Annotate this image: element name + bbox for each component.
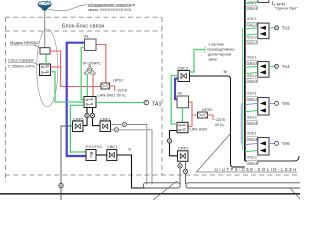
wire dashed room boundary top line 1 (5, 16, 162, 18)
svg-text:~220 В: ~220 В (116, 89, 128, 93)
svg-text:IP-УПАТС: IP-УПАТС (83, 60, 101, 65)
svg-text:P: P (276, 26, 278, 30)
svg-text:XS2.1: XS2.1 (247, 17, 257, 21)
wire dashed room boundary top line 2 (5, 30, 162, 32)
wire diagonal leader bottom left (153, 181, 177, 200)
block CRF5 optical box (73, 121, 84, 132)
svg-text:XS2.2: XS2.2 (247, 35, 257, 39)
wire blue riser along bar (240, 104, 242, 144)
svg-text:C 3560G-24TS: C 3560G-24TS (8, 64, 35, 69)
svg-text:“Орион Про”: “Орион Про” (275, 6, 299, 11)
wire СВС1 out to bottom duct (117, 155, 145, 188)
svg-text:XS3.1: XS3.1 (247, 56, 257, 60)
wire blue A2 to СВС2 (175, 79, 178, 100)
wire green LAN-SW1 to FV (70, 105, 86, 152)
connector block XS2 / TA3 (245, 17, 290, 44)
node converter circle LAN-SW2 (167, 139, 171, 143)
modem box (40, 48, 50, 54)
wire green УПАТС to LAN-SW1 (86, 74, 88, 97)
node fiber splice circle on fiber2 (114, 128, 118, 132)
cable duct B (186, 183, 303, 188)
svg-text:50 Гц: 50 Гц (117, 94, 126, 98)
svg-text:ТА5: ТА5 (282, 101, 290, 106)
wire circle1 to CRF5 (83, 118, 87, 126)
svg-text:ТА3: ТА3 (282, 26, 290, 31)
antenna dish W1 (38, 1, 51, 11)
svg-text:СКС2.3: СКС2.3 (248, 22, 258, 26)
connector block XS3 / TA4 (245, 56, 290, 83)
wire diagonal leader bottom right (290, 188, 301, 200)
block CRF1 optical box (100, 121, 111, 132)
svg-text:P: P (145, 101, 147, 105)
svg-text:U/UTP4-C5E-SOLID-LSZH: U/UTP4-C5E-SOLID-LSZH (215, 167, 298, 172)
wire red UPS2 mains (208, 115, 214, 120)
svg-text:CRF2: CRF2 (178, 145, 189, 150)
block CRF2 optical box (178, 151, 189, 162)
block FV surge box (86, 150, 96, 161)
svg-text:СВС1: СВС1 (107, 144, 118, 149)
svg-text:5b: 5b (224, 70, 228, 74)
svg-text:50 Гц: 50 Гц (215, 123, 224, 127)
block IP-УПАТС triangle symbol (84, 65, 96, 75)
svg-text:XS4.1: XS4.1 (247, 92, 257, 96)
wire green СВС2 to dispatcher note (190, 50, 206, 73)
wire circle2 to CRF1 (93, 118, 101, 126)
svg-text:LAN-SW2: LAN-SW2 (190, 127, 209, 132)
cable duct A (144, 183, 181, 188)
wire CRF1 fiber 1 right (111, 124, 123, 126)
svg-text:СКС2.6: СКС2.6 (248, 79, 258, 83)
wire fiber continue to bottom edge (60, 188, 62, 200)
svg-text:ТА6: ТА6 (282, 141, 290, 146)
node fiber splice circle on fiber1 (122, 122, 126, 126)
svg-text:XS5.2: XS5.2 (247, 155, 257, 159)
wire green riser along bar (242, 28, 244, 150)
svg-text:СКС2.5: СКС2.5 (248, 61, 258, 65)
svg-text:СКС2.10: СКС2.10 (248, 161, 260, 165)
node TA1 (144, 100, 149, 105)
wire blue A1 to FV1 (67, 43, 86, 156)
wire FV to СВС1 (96, 154, 107, 156)
wire antenna mast down to modem (44, 10, 46, 48)
node fiber splice circle CRF2-1 (178, 164, 182, 168)
wire green LAN-SW2 to СВС2 riser (171, 76, 178, 125)
svg-text:XS4.2: XS4.2 (247, 115, 257, 119)
svg-text:связи: связи (208, 58, 217, 62)
svg-text:СКС2.7: СКС2.7 (248, 97, 258, 101)
switch LAN-SW2 box (177, 122, 188, 132)
svg-text:XS3.2: XS3.2 (247, 74, 257, 78)
wire red УПАТС power (92, 74, 94, 97)
node operator equipment annotation (48, 5, 87, 11)
svg-text:UPS2: UPS2 (202, 107, 213, 112)
svg-text:FV1,FV2: FV1,FV2 (86, 144, 103, 149)
svg-text:СКС2.2: СКС2.2 (248, 6, 258, 10)
svg-text:A2: A2 (178, 90, 184, 95)
node fiber splice circle CRF2-2 (183, 169, 187, 173)
wire red modem to power bus (50, 51, 101, 87)
node fiber splice circle left (59, 183, 63, 187)
wire black LAN-SW2 to CRF2 (170, 131, 178, 139)
connector block XS5 / TA6 (245, 132, 290, 165)
wire green A1 to LAN-SW1 (81, 48, 84, 100)
patch cabinet bottom shelf (245, 156, 299, 161)
svg-text:ТА1: ТА1 (152, 102, 162, 108)
wire LAN-SW1 down to optical cross units (86, 108, 88, 114)
block СВС2 box (178, 71, 190, 82)
switch SW Cisco box (40, 64, 51, 76)
svg-text:СКС2.4: СКС2.4 (248, 40, 258, 44)
svg-text:диспетчерской: диспетчерской (208, 53, 231, 57)
svg-text:LAN-SW1: LAN-SW1 (98, 93, 117, 98)
wire dashed room boundary right (161, 17, 163, 175)
node converter circle 2 (90, 113, 94, 117)
equipment group ellipse (37, 29, 58, 107)
block A1 box (85, 39, 97, 51)
wire red A1 to UPS1 (96, 45, 106, 84)
node converter circle 1 (85, 113, 89, 117)
block UPS1 box (101, 83, 110, 89)
wire green modem to cisco (45, 54, 47, 64)
wire red UPS1 mains (110, 86, 115, 91)
wire red A2 UPS2 LAN-SW2 power (188, 102, 192, 126)
wire CRF5 fiber out left and down (61, 126, 73, 183)
svg-text:~220 В: ~220 В (214, 118, 226, 122)
svg-text:СКС2.8: СКС2.8 (248, 121, 258, 125)
wire CRF2 fiber 1 down (179, 161, 181, 163)
svg-text:UPS1: UPS1 (113, 77, 124, 82)
svg-text:Модем HR9260: Модем HR9260 (10, 40, 39, 45)
patch panel bar (244, 0, 246, 161)
wire red cisco to power bus (51, 66, 61, 68)
wire green A2 to LAN-SW2 (182, 108, 184, 123)
switch LAN-SW1 box (84, 97, 96, 108)
svg-text:Блок-Бокс связи: Блок-Бокс связи (62, 24, 104, 30)
block СВС1 box (107, 150, 117, 161)
block UPS2 box (198, 112, 208, 118)
wire dashed room boundary left (5, 17, 7, 182)
svg-text:A1: A1 (84, 34, 90, 39)
wire CRF1 fiber 2 right (111, 129, 115, 131)
svg-text:связи XXXXXXXXXXXX: связи XXXXXXXXXXXX (88, 7, 132, 12)
svg-text:Cisco Catalyst: Cisco Catalyst (8, 58, 34, 63)
wire thick bottom line (0, 193, 300, 195)
svg-text:P: P (276, 65, 278, 69)
block A2 box (177, 96, 189, 108)
wire dashed ground line bottom (5, 174, 300, 176)
svg-text:XS5.1: XS5.1 (247, 132, 257, 136)
wire green LAN-SW1 to TA1 (96, 102, 144, 104)
svg-text:к системе: к системе (209, 43, 224, 47)
wire black Sb cable СВС2 to patch bar (190, 76, 245, 167)
svg-text:СКС2.9: СКС2.9 (248, 137, 258, 141)
wire green cisco to LAN-SW1 long (51, 72, 85, 102)
connector block XS4 / TA5 (245, 92, 290, 125)
wire leader diagonal to cable (197, 133, 232, 172)
svg-text:производственно-: производственно- (207, 48, 235, 52)
svg-text:СВС2: СВС2 (178, 66, 189, 71)
svg-text:ТА4: ТА4 (282, 64, 290, 69)
wire CRF2 fiber 2 down (185, 161, 187, 169)
